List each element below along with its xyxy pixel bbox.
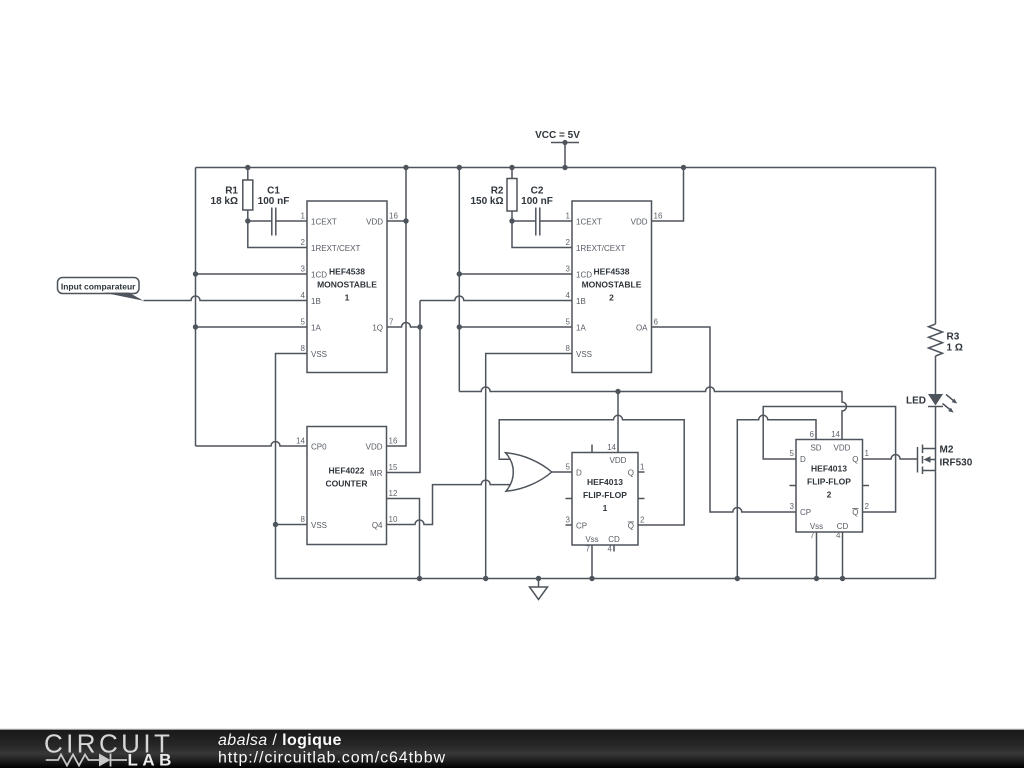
node VDD riser on rail: [403, 165, 408, 170]
svg-text:1: 1: [566, 212, 571, 221]
svg-text:Q: Q: [628, 469, 634, 478]
svg-text:Input comparateur: Input comparateur: [61, 282, 136, 292]
pin stub SD U4: [591, 445, 593, 453]
pin stub CD U4: [613, 545, 615, 552]
wire input comparateur to pin 4 1B of U1 (hops VCC drop): [144, 296, 308, 301]
svg-text:8: 8: [301, 515, 306, 524]
wire U5 Q pin 1 to M2 gate (hops Q2bar loop riser): [863, 455, 918, 460]
svg-text:OA: OA: [636, 324, 648, 333]
svg-text:1CD: 1CD: [311, 271, 327, 280]
wire ground rail (bottom): [276, 578, 936, 580]
svg-text:C2: C2: [531, 186, 544, 197]
svg-text:IRF530: IRF530: [940, 458, 973, 469]
svg-text:12: 12: [389, 489, 398, 498]
svg-text:100 nF: 100 nF: [258, 196, 290, 207]
svg-text:C1: C1: [267, 186, 280, 197]
wire U2 OA pin 6 to CP pin 3 of U5 (hops SD ground drop): [652, 327, 797, 512]
svg-text:MR: MR: [370, 469, 383, 478]
svg-text:14: 14: [607, 443, 616, 452]
wire VCC to pin 3 1CD of U1: [196, 273, 308, 275]
svg-text:R3: R3: [947, 332, 960, 343]
svg-text:1REXT/CEXT: 1REXT/CEXT: [311, 244, 360, 253]
IC U5 HEF4013 FLIP-FLOP 2: [790, 430, 870, 540]
pin stub right mid U4: [638, 498, 645, 500]
svg-text:7: 7: [810, 531, 815, 540]
svg-text:1: 1: [603, 503, 608, 513]
svg-text:16: 16: [389, 212, 398, 221]
node 1CD U2 tap: [457, 271, 462, 276]
svg-text:CP: CP: [576, 522, 587, 531]
wire U2 VDD pin 16 to rail: [652, 168, 684, 222]
svg-text:Vss: Vss: [585, 535, 598, 544]
VCC = 5V supply symbol: [535, 130, 580, 168]
wire U1 VDD pin 16 to riser: [387, 220, 406, 222]
svg-text:http://circuitlab.com/c64tbbw: http://circuitlab.com/c64tbbw: [218, 750, 446, 767]
svg-text:1A: 1A: [576, 324, 586, 333]
svg-text:15: 15: [389, 463, 398, 472]
svg-text:VSS: VSS: [311, 521, 327, 530]
svg-text:R1: R1: [225, 186, 238, 197]
node 1Q / MR / 1B junction: [417, 324, 422, 329]
node FF1 VDD tap: [615, 389, 620, 394]
IC U3 HEF4022 COUNTER: [296, 427, 398, 545]
svg-text:1 Ω: 1 Ω: [947, 343, 963, 354]
svg-text:4: 4: [301, 291, 306, 300]
node R2/C2/pin1/pin2 junction: [509, 218, 514, 223]
pin stub right mid U5: [863, 485, 870, 487]
LED D1: [906, 394, 957, 413]
pin stub CP U4: [566, 524, 573, 526]
wire LED cathode to M2 drain and source down to rail: [935, 407, 937, 579]
svg-text:VDD: VDD: [610, 456, 627, 465]
wire U1 VDD pin 16 riser and drop to U3 VDD pin 16: [387, 168, 407, 447]
svg-text:CP: CP: [800, 508, 811, 517]
node VCC drop 2 on rail: [457, 165, 462, 170]
wire R2/C2 node to pin 2 1REXT/CEXT of U2: [512, 221, 572, 248]
svg-text:3: 3: [301, 265, 306, 274]
ground symbol: [530, 579, 548, 600]
svg-text:HEF4538: HEF4538: [594, 267, 630, 277]
svg-text:LAB: LAB: [128, 751, 176, 768]
svg-text:abalsa / logique: abalsa / logique: [218, 732, 342, 749]
svg-text:14: 14: [831, 430, 840, 439]
svg-text:VSS: VSS: [576, 350, 592, 359]
svg-text:VDD: VDD: [366, 218, 383, 227]
node ground stem: [536, 576, 541, 581]
wire U4 Q2bar pin 2 loop to OR gate input A (hops FF1 VDD drop): [499, 415, 684, 525]
node U4 Vss on rail: [589, 576, 594, 581]
node 1A tap: [193, 324, 198, 329]
wire U1 1Q pin 7 output (hops VDD riser): [387, 323, 420, 328]
svg-text:6: 6: [654, 318, 659, 327]
svg-text:3: 3: [790, 502, 795, 511]
node U5 CD on rail: [840, 576, 845, 581]
svg-text:1: 1: [865, 449, 870, 458]
node R2 top on rail: [509, 165, 514, 170]
svg-text:D: D: [800, 455, 806, 464]
svg-text:Q: Q: [628, 522, 634, 531]
resistor R1 18k: [211, 168, 253, 222]
wire OR gate output to D pin 5 of U4: [552, 471, 572, 473]
svg-text:5: 5: [790, 449, 795, 458]
svg-text:150 kΩ: 150 kΩ: [470, 196, 503, 207]
svg-text:18 kΩ: 18 kΩ: [211, 196, 238, 207]
svg-text:10: 10: [389, 515, 398, 524]
svg-text:1Q: 1Q: [372, 324, 383, 333]
svg-text:1REXT/CEXT: 1REXT/CEXT: [576, 244, 625, 253]
svg-text:2: 2: [301, 238, 306, 247]
wire U5 Q2bar pin 2 feedback loop to D pin 5 of U5: [763, 407, 895, 513]
node U2 VDD on rail: [681, 165, 686, 170]
svg-text:4: 4: [608, 545, 613, 554]
svg-text:2: 2: [827, 490, 832, 500]
svg-text:VDD: VDD: [834, 444, 851, 453]
svg-text:2: 2: [865, 502, 870, 511]
svg-text:R2: R2: [491, 186, 504, 197]
svg-text:4: 4: [566, 291, 571, 300]
wire R3 to LED: [935, 356, 937, 394]
wire R1/C1 node to pin 2 1REXT/CEXT of U1: [248, 221, 307, 248]
OR gate U6: [506, 453, 552, 491]
wire U3 pin 12 drop to ground rail: [387, 499, 420, 579]
svg-text:16: 16: [389, 437, 398, 446]
svg-text:1: 1: [301, 212, 306, 221]
wire U3 Q4 pin 10 loop to OR gate input B (hops pin12 drop and U2 VSS drop): [387, 480, 512, 524]
svg-text:3: 3: [566, 265, 571, 274]
wire ground drop to U3 VSS pin 8: [276, 524, 308, 526]
wire VCC left drop (to 1CD,1A of U1 and CP0): [195, 168, 197, 447]
svg-text:FLIP-FLOP: FLIP-FLOP: [583, 490, 627, 500]
svg-text:5: 5: [301, 318, 306, 327]
svg-text:16: 16: [654, 212, 663, 221]
wire FF VDD rail (hops U2 VSS drop and OA drop) then down to U5 VDD pin 14 (hops Q2bar loop): [459, 387, 846, 440]
svg-text:1CEXT: 1CEXT: [576, 218, 602, 227]
svg-text:100 nF: 100 nF: [521, 196, 553, 207]
svg-text:VDD: VDD: [366, 443, 383, 452]
capacitor C2 100nF: [512, 186, 572, 236]
svg-text:2: 2: [609, 293, 614, 303]
wire VCC rail right drop to R3: [935, 168, 937, 325]
wire U2 VSS pin 8 to ground: [486, 354, 572, 579]
svg-text:VDD: VDD: [631, 218, 648, 227]
svg-text:VSS: VSS: [311, 350, 327, 359]
svg-text:6: 6: [810, 430, 815, 439]
wire VCC to pin 5 1A of U1: [196, 326, 308, 328]
flag Input comparateur: [58, 278, 144, 301]
svg-text:Q: Q: [852, 455, 858, 464]
svg-text:CD: CD: [837, 522, 849, 531]
node 1A U2 tap: [457, 324, 462, 329]
svg-text:HEF4013: HEF4013: [587, 477, 623, 487]
node U5 Vss on rail: [814, 576, 819, 581]
svg-text:5: 5: [566, 463, 571, 472]
wire U5 Vss pin 7 to rail: [816, 532, 818, 579]
node U2 VSS drop on rail: [483, 576, 488, 581]
svg-text:HEF4538: HEF4538: [329, 267, 365, 277]
svg-text:Q4: Q4: [372, 521, 383, 530]
svg-text:8: 8: [301, 344, 306, 353]
wire VCC to pin 3 1CD of U2: [459, 273, 572, 275]
wire 1Q riser to pin 4 1B of U2 (hops VCC drop 2): [420, 296, 572, 301]
svg-text:LED: LED: [906, 396, 926, 407]
svg-text:5: 5: [566, 318, 571, 327]
pin stub Q U4: [638, 471, 645, 473]
svg-text:MONOSTABLE: MONOSTABLE: [317, 280, 377, 290]
wire VCC top rail: [196, 167, 936, 169]
pin stub left mid U5: [790, 485, 797, 487]
node R1 top on rail: [245, 165, 250, 170]
svg-text:3: 3: [566, 516, 571, 525]
IC U2 HEF4538 MONOSTABLE 2: [566, 201, 663, 373]
svg-text:HEF4022: HEF4022: [329, 466, 365, 476]
svg-text:CD: CD: [608, 535, 620, 544]
transistor M2 IRF530 (NMOS): [918, 445, 973, 475]
svg-text:1B: 1B: [576, 297, 586, 306]
svg-text:1CD: 1CD: [576, 271, 592, 280]
svg-text:SD: SD: [810, 444, 821, 453]
svg-text:2: 2: [640, 516, 645, 525]
node R1/C1/pin1/pin2 junction: [245, 218, 250, 223]
svg-text:Vss: Vss: [810, 522, 823, 531]
svg-text:1: 1: [640, 463, 645, 472]
IC U4 HEF4013 FLIP-FLOP 1: [566, 443, 646, 554]
node pin12 drop on rail: [417, 576, 422, 581]
wire U4 Vss pin 7 to rail: [591, 545, 593, 579]
svg-text:7: 7: [586, 545, 591, 554]
resistor R2 150k: [470, 168, 517, 222]
node SD ground drop on rail: [735, 576, 740, 581]
svg-text:D: D: [576, 469, 582, 478]
svg-text:1: 1: [345, 293, 350, 303]
wire VCC to pin 5 1A of U2: [459, 326, 572, 328]
svg-text:COUNTER: COUNTER: [325, 479, 367, 489]
svg-text:4: 4: [836, 531, 841, 540]
node 1CD tap: [193, 271, 198, 276]
svg-text:14: 14: [296, 437, 305, 446]
wire VCC drop 2 (to 1CD,1A of U2, FF VDD rail): [458, 168, 460, 392]
node VCC stem on rail: [562, 165, 567, 170]
node U1 VDD: [403, 218, 408, 223]
wire VCC to CP0 pin 14 of U3 (hops VSS drop): [196, 442, 308, 447]
wire U5 SD pin 6 ground connection (riser from rail, hops Q2bar vertical): [737, 415, 816, 578]
svg-text:MONOSTABLE: MONOSTABLE: [582, 280, 642, 290]
svg-text:HEF4013: HEF4013: [811, 464, 847, 474]
svg-text:1B: 1B: [311, 297, 321, 306]
op-amp style IC U1 HEF4538 MONOSTABLE 1: [301, 201, 399, 373]
wire U1 VSS pin 8 to ground drop: [276, 354, 308, 579]
pin stub left mid U4: [566, 498, 573, 500]
svg-text:1A: 1A: [311, 324, 321, 333]
svg-text:7: 7: [389, 318, 394, 327]
svg-text:8: 8: [566, 344, 571, 353]
resistor R3 1 ohm: [929, 324, 963, 356]
node U3 VSS tap: [273, 522, 278, 527]
wire U5 CD pin 4 to rail: [842, 532, 844, 579]
svg-text:2: 2: [566, 238, 571, 247]
wire FF1 VDD drop to pin 14 of U4: [617, 392, 619, 453]
svg-text:1CEXT: 1CEXT: [311, 218, 337, 227]
wire MR pin 15 of U3 to 1Q riser: [387, 301, 421, 473]
svg-text:FLIP-FLOP: FLIP-FLOP: [807, 477, 851, 487]
svg-text:CP0: CP0: [311, 443, 327, 452]
svg-text:M2: M2: [940, 445, 954, 456]
svg-text:VCC = 5V: VCC = 5V: [535, 130, 580, 141]
svg-text:Q: Q: [852, 508, 858, 517]
capacitor C1 100nF: [248, 186, 307, 236]
